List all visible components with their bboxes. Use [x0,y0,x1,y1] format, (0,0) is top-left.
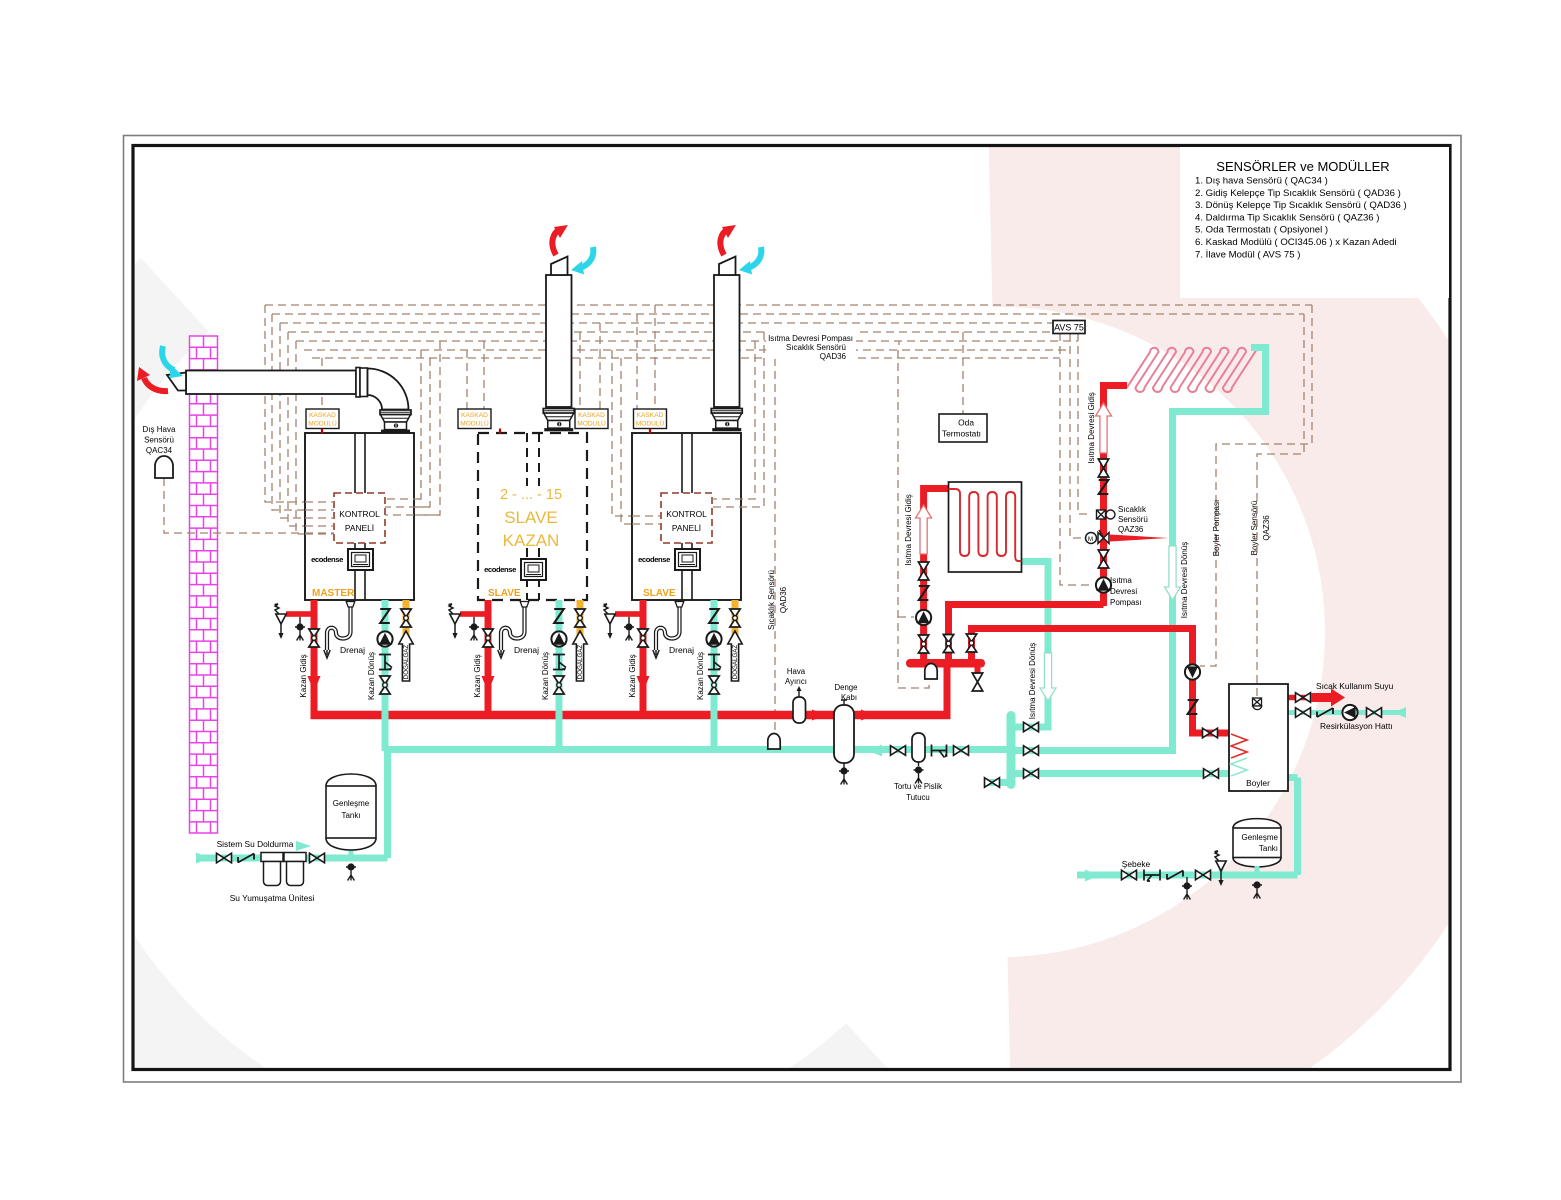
valve [966,634,976,652]
svg-text:Tutucu: Tutucu [906,793,930,802]
svg-text:QAZ36: QAZ36 [1118,525,1144,534]
svg-text:Şebeke: Şebeke [1122,859,1151,869]
valve [918,635,928,653]
wire HX supply [924,489,949,667]
pump [1096,577,1111,592]
svg-text:Tankı: Tankı [341,811,360,820]
wire HX return [1014,562,1048,728]
svg-text:6. Kaskad Modülü ( OCI345.06 ): 6. Kaskad Modülü ( OCI345.06 ) x Kazan A… [1195,237,1397,248]
valve [1367,708,1382,718]
valve [1296,693,1311,703]
genlesme tank left [326,774,376,850]
wire kazan donus main header [388,746,1008,753]
safety valve [1214,850,1226,886]
svg-text:Su Yumuşatma Ünitesi: Su Yumuşatma Ünitesi [230,893,315,903]
chimney of slave boiler 3 [711,225,761,431]
drain [346,863,356,880]
QAZ36 sensor [1097,510,1116,519]
svg-text:Sıcaklık Sensörü: Sıcaklık Sensörü [786,343,846,352]
svg-text:Isıtma Devresi Gidiş: Isıtma Devresi Gidiş [904,494,913,566]
svg-text:Sensörü: Sensörü [1118,515,1148,524]
valve [891,746,906,756]
svg-text:Devresi: Devresi [1110,587,1137,596]
flex connector [919,586,929,600]
svg-text:Sıcaklık Sensörü: Sıcaklık Sensörü [767,570,776,630]
boiler B1 MASTER [305,433,414,600]
svg-text:SLAVE: SLAVE [488,588,521,599]
valve [1024,769,1039,779]
cyan return piping [196,348,1401,876]
wire manifold riser L2 boyler circuit [972,629,1230,734]
valve [1098,550,1108,568]
wire kazan gidis main header [311,711,951,720]
white arrow HX supply [916,505,932,554]
horizontal flue duct [137,346,411,433]
chimney of slave boiler group [543,225,593,431]
svg-text:QAC34: QAC34 [146,446,173,455]
check valve [1317,708,1333,717]
svg-text:Kabı: Kabı [841,693,857,702]
svg-text:KONTROL: KONTROL [339,509,380,519]
boiler B2 dashed SLAVE KAZAN 2..15 [478,433,587,600]
svg-text:Sistem Su Doldurma: Sistem Su Doldurma [217,839,294,849]
strainer [1144,870,1160,882]
svg-text:SENSÖRLER ve MODÜLLER: SENSÖRLER ve MODÜLLER [1216,159,1389,174]
svg-text:Dış Hava: Dış Hava [143,425,176,434]
svg-text:1. Dış hava Sensörü ( QAC34 ): 1. Dış hava Sensörü ( QAC34 ) [1195,176,1328,187]
boiler 3 bottom piping [603,600,742,751]
wire header to manifold riser [944,663,951,719]
flex connector [1099,480,1109,494]
valve [972,673,982,691]
valve [310,853,325,863]
sistem su doldurma [196,853,210,864]
svg-text:PANELİ: PANELİ [672,523,701,533]
drain [1252,881,1262,898]
svg-text:Isıtma: Isıtma [1110,576,1132,585]
cyan manifold bar [1007,711,1016,789]
svg-text:ecodense: ecodense [638,555,670,564]
floor heating coil [1127,348,1261,392]
valve [1024,722,1039,732]
svg-text:PANELİ: PANELİ [345,523,374,533]
svg-text:Isıtma Devresi Gidiş: Isıtma Devresi Gidiş [1087,392,1096,464]
svg-text:SLAVE: SLAVE [504,508,558,527]
AVS 75 box [1053,321,1085,334]
drain [839,767,849,784]
svg-text:MASTER: MASTER [312,588,355,599]
svg-text:2 - ... - 15: 2 - ... - 15 [500,487,562,503]
bus labels [766,331,856,359]
pump [916,610,931,625]
svg-text:Tankı: Tankı [1259,844,1278,853]
M mixing valve [1086,530,1110,544]
oda termostati box [939,414,987,442]
valve [985,778,1000,788]
boiler 1 bottom piping [274,600,413,751]
valve [1204,769,1219,779]
svg-text:7. İlave Modül ( AVS 75 ): 7. İlave Modül ( AVS 75 ) [1195,249,1300,260]
valve [1098,459,1108,477]
flex connector [1188,700,1198,714]
svg-text:2. Gidiş Kelepçe Tip Sıcaklık: 2. Gidiş Kelepçe Tip Sıcaklık Sensörü ( … [1195,188,1401,199]
boyler tank [1229,684,1288,791]
denge kabi [834,705,854,763]
svg-text:Tortu ve Pislik: Tortu ve Pislik [894,782,942,791]
svg-text:M: M [1088,537,1093,543]
pump [1342,705,1357,720]
su yumusatma unitesi [261,853,306,886]
wire manifold drain stub [975,663,981,676]
wire floor heating return [1014,348,1266,751]
valve [954,746,969,756]
svg-text:Boyler Pompası: Boyler Pompası [1212,500,1221,556]
svg-text:Resirkülasyon Hattı: Resirkülasyon Hattı [1320,721,1393,731]
svg-text:Denge: Denge [835,683,858,692]
thermometer symbol [1253,698,1262,710]
svg-text:QAD36: QAD36 [820,352,847,361]
drain [1182,882,1192,899]
wire fill line down + bottom [196,746,388,858]
brick wall [190,336,218,833]
hava ayirici [793,697,806,723]
wire manifold riser L1 [949,605,1104,667]
white arrow floor return [1165,546,1181,600]
svg-text:Isıtma Devresi Dönüş: Isıtma Devresi Dönüş [1180,542,1189,618]
wire hot water out [1288,695,1315,701]
inner frame [133,146,1450,1070]
pump [1185,664,1200,679]
svg-text:QAD36: QAD36 [779,586,788,613]
svg-text:Sensörü: Sensörü [144,436,174,445]
sensor pocket [925,664,937,680]
red ticks below kaskad boxes [321,429,323,434]
valve [1024,746,1039,756]
svg-text:Isıtma Devresi Pompası: Isıtma Devresi Pompası [768,334,853,343]
svg-text:KONTROL: KONTROL [666,509,707,519]
svg-text:Sıcaklık: Sıcaklık [1118,505,1147,514]
outer frame [124,136,1462,1083]
valve [943,635,953,653]
safety valve on sebeke [1219,862,1224,875]
svg-text:Hava: Hava [787,667,806,676]
mixing valve bypass wedge [1110,535,1168,542]
svg-text:Oda: Oda [958,418,974,428]
svg-text:Ayırıcı: Ayırıcı [785,677,807,686]
cascade bus dashed wiring [164,305,1312,734]
svg-text:4. Daldırma Tip Sıcaklık Sensö: 4. Daldırma Tip Sıcaklık Sensörü ( QAZ36… [1195,212,1379,223]
wall terminal arrows [144,378,168,391]
wire floor heating supply [1104,386,1128,607]
kaskad module boxes [306,409,339,429]
wire boyler return into tank [1213,770,1229,777]
sensor pocket [768,734,780,750]
wire sebeke line [1077,778,1298,876]
svg-text:Pompası: Pompası [1110,598,1142,607]
boyler sensor dashed into tank [1256,480,1258,696]
boiler B3 SLAVE [632,433,741,600]
valve [217,853,232,863]
valve [1296,708,1311,718]
svg-text:QAZ36: QAZ36 [1262,515,1271,541]
svg-text:SLAVE: SLAVE [643,588,676,599]
valve [1122,870,1137,880]
heat exchanger box [949,482,1022,572]
genlesme tank right [1233,819,1281,867]
svg-text:Genleşme: Genleşme [333,799,370,808]
drain [914,766,924,783]
legend SENSORLER ve MODULLER [1180,147,1449,298]
valve [918,562,928,580]
svg-text:Sıcak Kullanım Suyu: Sıcak Kullanım Suyu [1316,681,1394,691]
wire recirculation [1288,710,1401,715]
svg-text:Termostatı: Termostatı [942,429,981,439]
svg-text:3. Dönüş Kelepçe Tip Sıcaklık: 3. Dönüş Kelepçe Tip Sıcaklık Sensörü ( … [1195,200,1407,211]
red supply piping [311,386,1316,734]
svg-text:KAZAN: KAZAN [503,531,560,550]
check valve [238,854,254,863]
red manifold bar [906,659,985,668]
control panel bus entries [305,433,764,534]
white arrow HX return [1040,653,1056,701]
cyan main arrow left [868,745,882,757]
valve [1203,728,1218,738]
tortu ve pislik tutucu [912,733,925,762]
svg-text:Isıtma Devresi Dönüş: Isıtma Devresi Dönüş [1028,643,1037,719]
red arrows on header [812,710,826,721]
valve [1196,870,1211,880]
svg-text:ecodense: ecodense [311,555,343,564]
svg-text:Boyler: Boyler [1246,778,1270,788]
white arrow floor supply [1096,403,1112,453]
wire manifold branch to boyler return [986,774,1213,783]
svg-text:ecodense: ecodense [484,565,516,574]
check valve [1167,871,1183,880]
boiler 2 bottom piping [448,600,587,751]
elbow to boiler 1 [368,369,409,410]
svg-text:AVS 75: AVS 75 [1054,323,1084,333]
sebeke water inlet [1085,870,1099,882]
svg-text:Genleşme: Genleşme [1242,833,1279,842]
svg-text:5. Oda Termostatı ( Opsiyonel: 5. Oda Termostatı ( Opsiyonel ) [1195,225,1328,236]
